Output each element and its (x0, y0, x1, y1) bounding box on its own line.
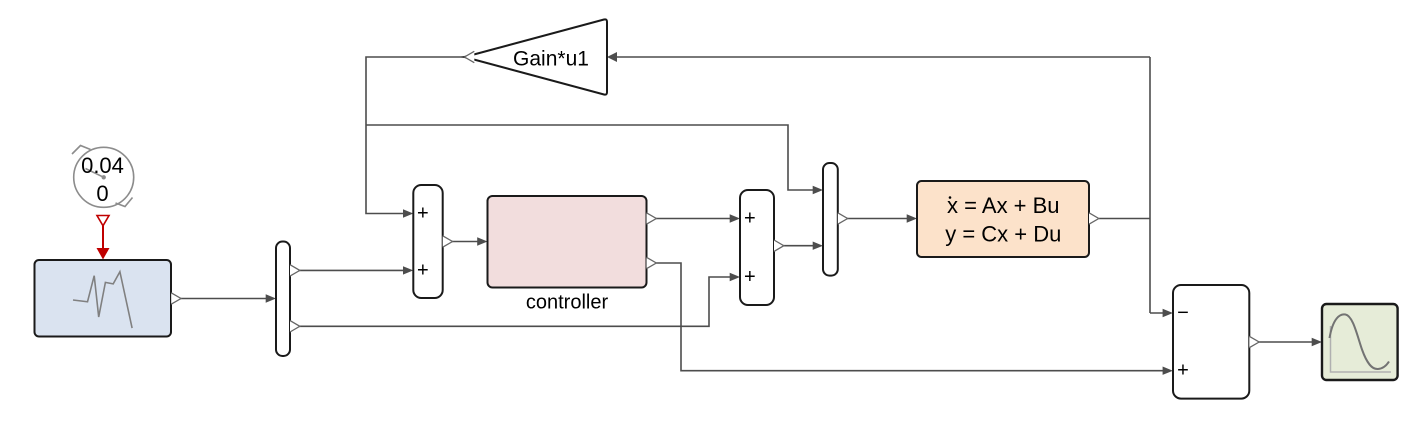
wire: controller output2 to sum3 plus input (655, 263, 1167, 371)
clock value 0.04 (81, 153, 124, 178)
sum block S1 (413, 185, 442, 298)
arrowhead into controller input (477, 237, 487, 245)
arrowhead into sum1 first input (403, 209, 413, 217)
controller output port 2 (647, 257, 657, 268)
state-space output port (1089, 213, 1099, 224)
demux D1 (276, 242, 290, 357)
sum S2 output port (774, 240, 784, 251)
wire: demux output1 to sum1 second input (299, 269, 407, 271)
arrowhead into mux M2 first input (813, 186, 823, 194)
wire: signal builder output to demux input (181, 298, 271, 300)
arrowhead into sum3 minus input (1163, 309, 1173, 317)
red event trigger arrow (97, 216, 110, 260)
signal builder output port (171, 293, 181, 304)
controller label (526, 292, 609, 314)
mux M2 (823, 163, 838, 276)
arrowhead into gain input (607, 52, 617, 62)
mux M2 output port (838, 213, 848, 224)
wire: controller output1 to sum2 first input (655, 218, 734, 220)
svg-text:Gain*u1: Gain*u1 (513, 48, 589, 71)
svg-text:−: − (1177, 302, 1189, 324)
wire: branch from gain output down-line to mux M2 first input (366, 125, 817, 190)
svg-text:0: 0 (96, 181, 108, 206)
sum S3 output port (1249, 336, 1259, 347)
clock value 0 (96, 181, 108, 206)
wire: demux output2 to sum2 second input (299, 277, 734, 326)
wire: mux M2 output to state-space input (847, 218, 911, 220)
sum S1 output port (443, 236, 453, 247)
svg-text:+: + (417, 259, 429, 281)
svg-text:+: + (744, 208, 756, 230)
state-space block (917, 181, 1089, 257)
arrowhead into sum3 plus input (1163, 367, 1173, 375)
wire: feedback from state-space output junction (613, 57, 1167, 313)
clock source icon (72, 146, 134, 208)
wire: gain output to sum1 first input (366, 57, 465, 214)
svg-text:+: + (744, 266, 756, 288)
signal builder block (35, 260, 172, 337)
demux D1 output port 2 (290, 321, 300, 332)
wire: sum1 output to controller input (451, 241, 481, 243)
sum block S3 (1173, 285, 1249, 399)
svg-text:y = Cx + Du: y = Cx + Du (945, 222, 1061, 247)
arrowhead into sum2 second input (730, 273, 740, 281)
wire: sum2 output to mux M2 second input (783, 245, 817, 247)
svg-text:+: + (417, 203, 429, 225)
controller output port 1 (647, 213, 657, 224)
svg-text:controller: controller (526, 292, 609, 314)
controller block (488, 196, 647, 288)
arrowhead into sum1 second input (403, 266, 413, 274)
sum block S2 (740, 190, 774, 305)
arrowhead into demux input (266, 294, 276, 302)
svg-text:x = Ax + Bu: x = Ax + Bu (947, 193, 1060, 218)
arrowhead into scope input (1312, 338, 1322, 346)
svg-text:0.04: 0.04 (81, 153, 124, 178)
gain block Gain*u1 (465, 19, 608, 94)
wire: sum3 output to scope input (1258, 341, 1316, 343)
arrowhead into state-space input (907, 214, 917, 222)
arrowhead into mux M2 second input (813, 242, 823, 250)
svg-text:+: + (1177, 360, 1189, 382)
arrowhead into sum2 first input (730, 214, 740, 222)
scope block (1322, 304, 1398, 380)
gain output port (465, 51, 475, 62)
demux D1 output port 1 (290, 265, 300, 276)
